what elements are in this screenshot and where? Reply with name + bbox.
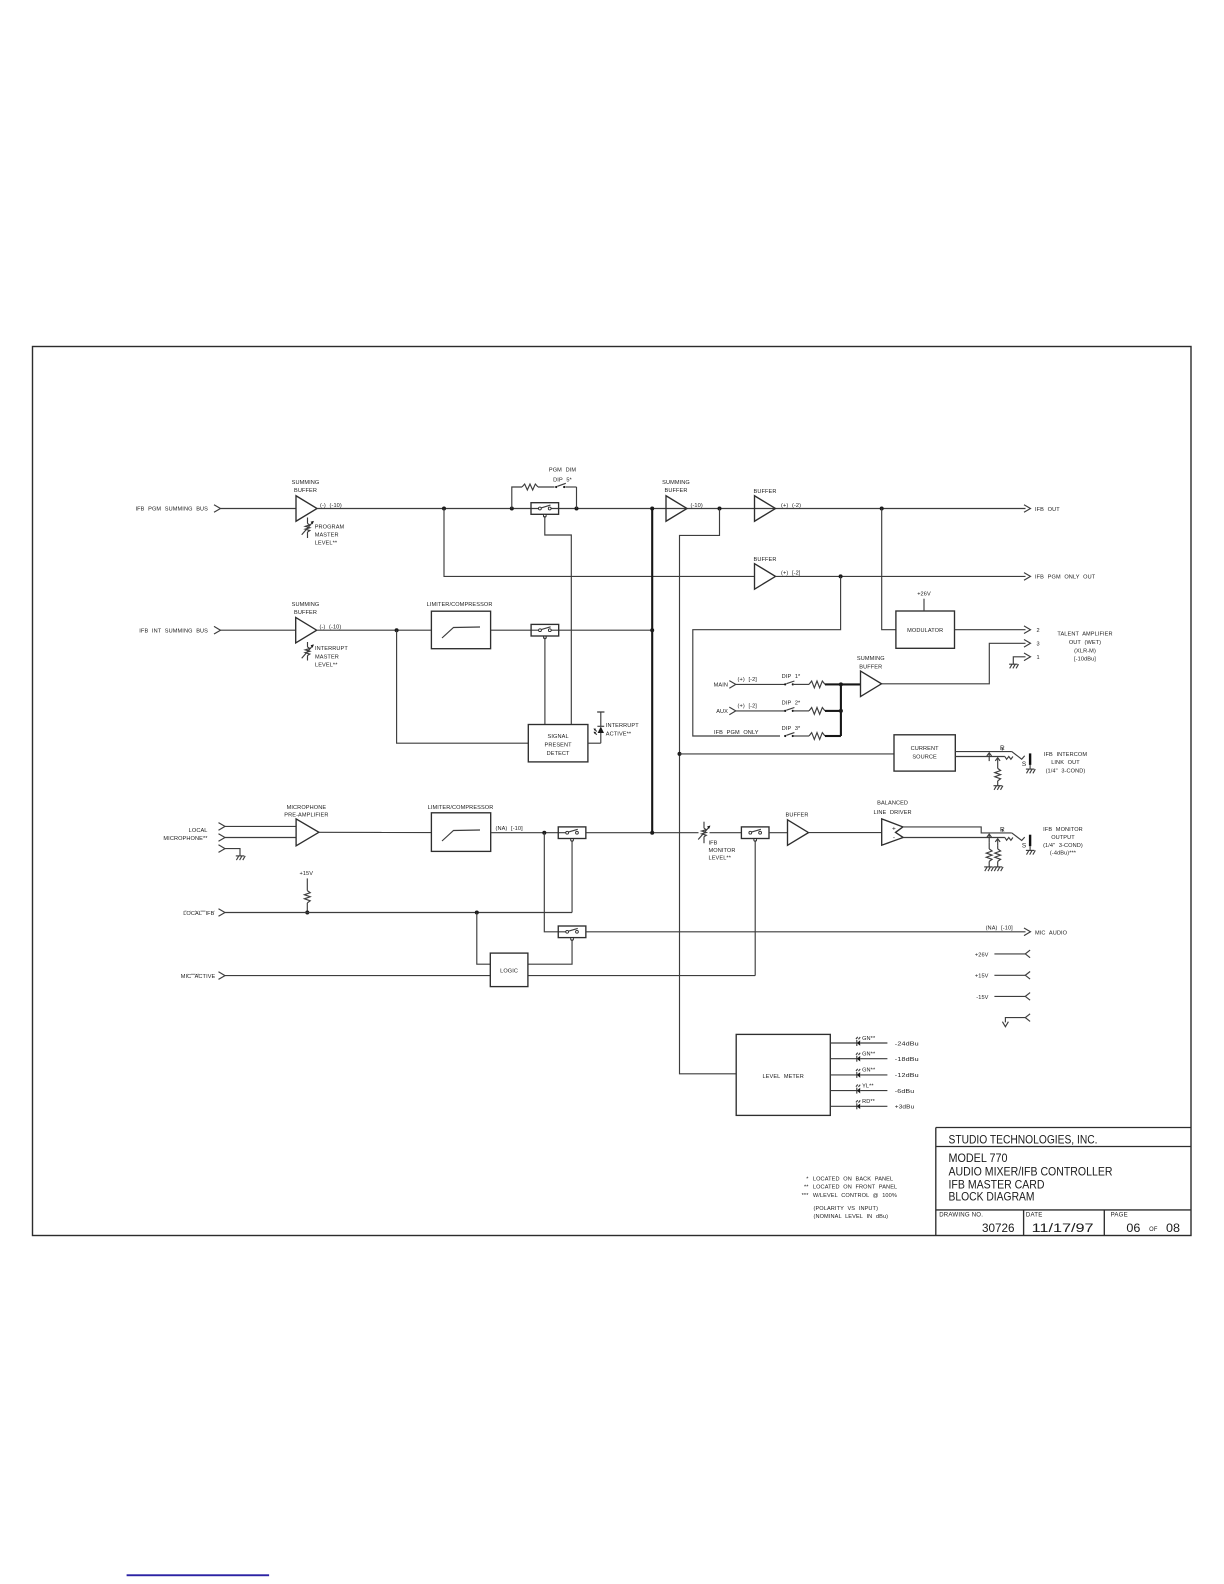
wire switch to buffer [769, 832, 788, 834]
wire pgm-only to resistor [794, 735, 809, 737]
svg-text:(+) [-2]: (+) [-2] [781, 571, 801, 577]
buffer U4 [754, 557, 801, 589]
wire mic audio out [586, 931, 1026, 933]
note w/level control [802, 1193, 897, 1199]
note polarity vs input [814, 1206, 879, 1212]
wire monitor switch control [754, 840, 756, 975]
resistor monitor term 2 [995, 846, 1001, 867]
svg-text:SUMMING: SUMMING [857, 656, 885, 662]
svg-text:INTERRUPT: INTERRUPT [606, 723, 639, 729]
level meter LED GN** -12dBu [830, 1068, 919, 1080]
svg-text:MIC AUDIO: MIC AUDIO [1035, 931, 1068, 937]
svg-text:TALENT AMPLIFIER: TALENT AMPLIFIER [1057, 631, 1112, 637]
switch DIP 2* [784, 708, 794, 713]
svg-text:S: S [1022, 843, 1027, 850]
wire pgm-only feed [444, 509, 755, 577]
svg-text:BUFFER: BUFFER [754, 489, 777, 495]
resistor MAIN summing [809, 681, 825, 688]
switch DIP 3 [784, 733, 794, 738]
output MIC AUDIO [1024, 928, 1068, 937]
buffer U3 [754, 489, 802, 521]
switch S3 mic [558, 827, 586, 841]
svg-text:IFB OUT: IFB OUT [1035, 507, 1060, 513]
svg-text:(-) (-10): (-) (-10) [320, 625, 342, 631]
output IFB PGM ONLY OUT [1024, 573, 1096, 581]
title text STUDIO TECHNOLOGIES, INC. [949, 1133, 1098, 1147]
svg-text:CURRENT: CURRENT [911, 746, 940, 752]
wire pgm-only to bus [825, 735, 841, 737]
limiter/compressor (mic) [428, 805, 494, 851]
svg-text:+3dBu: +3dBu [895, 1105, 915, 1111]
switch S5 mic audio [558, 926, 586, 940]
svg-text:MIC ACTIVE: MIC ACTIVE [181, 974, 216, 980]
summing buffer U7 (interrupt) [292, 602, 342, 643]
wire AUX to resistor [794, 710, 809, 712]
title text AUDIO MIXER/IFB CONTROLLER [949, 1164, 1113, 1178]
svg-text:-12dBu: -12dBu [895, 1073, 919, 1079]
svg-text:W/LEVEL CONTROL @ 100%: W/LEVEL CONTROL @ 100% [813, 1193, 897, 1199]
svg-text:LEVEL**: LEVEL** [315, 541, 338, 547]
svg-text:BUFFER: BUFFER [294, 488, 317, 494]
potentiometer IFB MONITOR LEVEL [698, 822, 735, 862]
wire tap to current source [680, 753, 895, 755]
svg-text:+26V: +26V [917, 591, 931, 597]
potentiometer PROGRAM MASTER LEVEL [302, 518, 345, 547]
svg-text:(NOMINAL LEVEL IN dBu): (NOMINAL LEVEL IN dBu) [814, 1214, 889, 1220]
input LOCAL IFB [183, 909, 225, 917]
output XLR pin 3 [1024, 640, 1040, 648]
wire driver hot out [903, 827, 1012, 833]
wire modulator out [955, 629, 1026, 631]
logic box [490, 953, 528, 987]
buffer U9 (monitor) [786, 813, 809, 846]
svg-text:SIGNAL: SIGNAL [548, 734, 569, 740]
input MAIN [714, 681, 736, 689]
output IFB OUT [1024, 505, 1060, 513]
supply pin -15V [976, 993, 1030, 1001]
drawing no. cell [939, 1212, 1014, 1235]
svg-text:BUFFER: BUFFER [786, 813, 809, 819]
node pgm bus junction [650, 507, 654, 511]
ground monitor terms [984, 867, 1003, 871]
svg-text:IFB INT SUMMING BUS: IFB INT SUMMING BUS [139, 628, 208, 634]
wire driver cold out [903, 837, 1005, 839]
svg-text:MAIN: MAIN [714, 683, 728, 689]
svg-text:IFB PGM ONLY: IFB PGM ONLY [714, 730, 759, 736]
wire mic audio feed [544, 833, 567, 932]
wire pgm only out [776, 575, 1026, 577]
title text BLOCK DIAGRAM [949, 1190, 1035, 1204]
svg-text:(NA) [-10]: (NA) [-10] [496, 826, 524, 832]
input IFB INT SUMMING BUS [139, 626, 220, 634]
svg-text:MASTER: MASTER [315, 532, 339, 538]
wire bus to summing buffer [841, 683, 861, 685]
svg-text:IFB INTERCOM: IFB INTERCOM [1044, 752, 1088, 758]
wire mic shield [225, 849, 240, 856]
svg-text:LINK OUT: LINK OUT [1051, 760, 1080, 766]
svg-text:LOCAL IFB: LOCAL IFB [183, 911, 214, 917]
svg-text:OUTPUT: OUTPUT [1051, 835, 1075, 841]
supply +26V modulator [917, 591, 931, 611]
svg-text:(1/4" 3-COND): (1/4" 3-COND) [1043, 843, 1083, 849]
svg-text:(NA) [-10]: (NA) [-10] [986, 925, 1014, 931]
wire AUX to bus [825, 710, 841, 712]
resistor PGM DIM [512, 484, 555, 509]
node pgm-monitor tee [442, 507, 446, 511]
node modulator tap [880, 507, 884, 511]
svg-text:DETECT: DETECT [547, 751, 570, 757]
wire mic inputs [225, 826, 296, 837]
wire mic audio switch control [528, 939, 572, 964]
svg-text:PRE-AMPLIFIER: PRE-AMPLIFIER [284, 813, 328, 819]
microphone pre-amplifier U8 [284, 805, 328, 846]
svg-text:OUT (WET): OUT (WET) [1069, 640, 1101, 646]
wire current source out hot [955, 751, 1012, 753]
svg-text:-: - [893, 835, 895, 842]
svg-text:BALANCED: BALANCED [877, 801, 908, 807]
balanced line driver U10 [873, 801, 911, 846]
svg-text:BUFFER: BUFFER [754, 557, 777, 563]
svg-text:11/17/97: 11/17/97 [1032, 1221, 1094, 1235]
wire dim switch control [545, 516, 572, 725]
input MIC ACTIVE [181, 972, 225, 980]
node current source tap [678, 752, 682, 756]
svg-text:R: R [1000, 826, 1005, 833]
label (NA) [-10] mic [496, 826, 524, 832]
svg-text:SOURCE: SOURCE [912, 755, 937, 761]
svg-text:[-10dBu]: [-10dBu] [1074, 656, 1096, 662]
supply +15V pullup [299, 871, 313, 913]
resistor monitor term 1 [986, 842, 992, 867]
svg-text:(POLARITY VS INPUT): (POLARITY VS INPUT) [814, 1206, 879, 1212]
label IFB INTERCOM LINK OUT [1044, 752, 1088, 774]
svg-text:BUFFER: BUFFER [665, 488, 688, 494]
wire mic active row [225, 975, 755, 977]
jack IFB INTERCOM LINK OUT [987, 745, 1036, 773]
svg-text:**: ** [804, 1184, 809, 1190]
svg-text:STUDIO TECHNOLOGIES, INC.: STUDIO TECHNOLOGIES, INC. [949, 1133, 1098, 1147]
wire local ifb to logic [477, 913, 491, 965]
wire MAIN to bus [825, 683, 841, 685]
svg-text:GN**: GN** [862, 1068, 876, 1074]
modulator U5 [896, 611, 955, 648]
LED INTERRUPT ACTIVE [594, 712, 640, 743]
wire preamp to limiter [319, 831, 432, 833]
node bus to monitor [650, 831, 654, 835]
node pgm only tap [839, 574, 843, 578]
wire mic switch control [571, 840, 573, 912]
node pullup [305, 911, 309, 915]
svg-text:LOCATED ON BACK PANEL: LOCATED ON BACK PANEL [813, 1177, 893, 1183]
date cell [1026, 1212, 1094, 1235]
wire limiter to switch [491, 629, 653, 631]
node mic audio tap [542, 831, 546, 835]
input IFB PGM SUMMING BUS [135, 505, 220, 513]
svg-text:RD**: RD** [862, 1099, 876, 1105]
wire pgm bus to summing buffer [221, 508, 297, 510]
wire summing to pin3 [882, 643, 1026, 684]
svg-text:+26V: +26V [975, 952, 989, 958]
svg-text:(-) (-10): (-) (-10) [320, 503, 342, 509]
switch S1 pgm dim [531, 503, 559, 517]
resistor link term [995, 766, 1001, 786]
level meter LED GN** -24dBu [830, 1036, 919, 1048]
svg-text:MICROPHONE**: MICROPHONE** [163, 836, 208, 842]
svg-text:(1/4" 3-COND): (1/4" 3-COND) [1046, 768, 1086, 774]
wire to signal detect [397, 630, 529, 743]
svg-text:SUMMING: SUMMING [662, 480, 690, 486]
svg-text:GN**: GN** [862, 1052, 876, 1058]
svg-text:+15V: +15V [975, 974, 989, 980]
wire MAIN to resistor [794, 683, 809, 685]
svg-text:INTERRUPT: INTERRUPT [315, 646, 348, 652]
wire int switch control [544, 637, 546, 724]
svg-text:+15V: +15V [299, 871, 313, 877]
svg-text:DIP 1*: DIP 1* [782, 674, 801, 680]
svg-text:SUMMING: SUMMING [292, 602, 320, 608]
note nominal level [814, 1214, 889, 1220]
wire pgm feed to level meter [680, 509, 737, 1074]
switch S4 monitor [741, 827, 769, 841]
svg-text:BUFFER: BUFFER [859, 665, 882, 671]
wire int to limiter [317, 629, 431, 631]
svg-text:(+) (-2): (+) (-2) [781, 503, 801, 509]
svg-text:IFB PGM ONLY OUT: IFB PGM ONLY OUT [1035, 575, 1096, 581]
label TALENT AMPLIFIER OUT [1057, 631, 1112, 662]
svg-text:GN**: GN** [862, 1036, 876, 1042]
potentiometer INTERRUPT MASTER LEVEL [302, 642, 349, 668]
supply pin +15V [975, 972, 1030, 980]
summing buffer U6 (talent) [857, 656, 885, 696]
svg-text:MONITOR: MONITOR [709, 848, 736, 854]
switch S2 interrupt [531, 624, 559, 638]
svg-text:R: R [1000, 745, 1005, 752]
svg-text:BUFFER: BUFFER [294, 610, 317, 616]
svg-text:MODULATOR: MODULATOR [907, 628, 943, 634]
summing buffer U2 (-10) [662, 480, 703, 521]
supply pin +26V [975, 950, 1030, 958]
summing bus node [839, 682, 843, 736]
svg-text:PROGRAM: PROGRAM [315, 524, 345, 530]
svg-text:LEVEL**: LEVEL** [315, 662, 338, 668]
svg-text:YL**: YL** [862, 1083, 874, 1089]
input LOCAL MICROPHONE [163, 823, 225, 853]
footer link line [127, 1574, 270, 1576]
wire int bus to buffer [221, 629, 296, 631]
note located on back panel [806, 1177, 893, 1183]
wire MAIN row [736, 674, 801, 684]
summing bus (heavy) [650, 509, 654, 833]
svg-text:DRAWING NO.: DRAWING NO. [939, 1212, 983, 1219]
svg-text:IFB PGM SUMMING BUS: IFB PGM SUMMING BUS [135, 507, 208, 513]
svg-text:(-10): (-10) [691, 503, 703, 509]
svg-text:MASTER: MASTER [315, 654, 339, 660]
page cell [1111, 1212, 1180, 1235]
svg-text:LOCATED ON FRONT PANEL: LOCATED ON FRONT PANEL [813, 1184, 897, 1190]
svg-text:(+) [-2]: (+) [-2] [738, 703, 758, 709]
svg-text:(+) [-2]: (+) [-2] [738, 677, 758, 683]
wire limiter to mic switch [491, 832, 567, 834]
svg-text:LIMITER/COMPRESSOR: LIMITER/COMPRESSOR [427, 602, 493, 608]
svg-text:30726: 30726 [982, 1221, 1015, 1235]
svg-text:DIP 3*: DIP 3* [782, 726, 801, 732]
svg-text:-24dBu: -24dBu [895, 1041, 919, 1047]
wire local ifb row [225, 912, 572, 914]
svg-text:LOCAL: LOCAL [189, 828, 208, 834]
node dim bypass right [575, 507, 579, 511]
wire pot to monitor switch [710, 832, 742, 834]
current source [894, 735, 955, 771]
signal present detect [528, 725, 588, 762]
level meter LED GN** -18dBu [830, 1052, 919, 1064]
svg-text:-18dBu: -18dBu [895, 1057, 919, 1063]
switch DIP 1* [784, 681, 794, 686]
svg-text:AUDIO MIXER/IFB CONTROLLER: AUDIO MIXER/IFB CONTROLLER [949, 1164, 1113, 1178]
svg-text:PAGE: PAGE [1111, 1212, 1128, 1219]
node logic tap [475, 911, 479, 915]
svg-text:LIMITER/COMPRESSOR: LIMITER/COMPRESSOR [428, 805, 494, 811]
svg-text:IFB: IFB [709, 840, 718, 846]
wire ifb-out to modulator [882, 509, 896, 630]
output XLR pin 2 [1024, 626, 1040, 634]
jack IFB MONITOR OUTPUT [987, 826, 1036, 854]
svg-text:LINE DRIVER: LINE DRIVER [873, 810, 911, 816]
summing buffer U1 (program) [292, 480, 342, 521]
svg-text:DATE: DATE [1026, 1212, 1043, 1219]
svg-text:*: * [806, 1177, 809, 1183]
svg-text:SUMMING: SUMMING [292, 480, 320, 486]
wire current source out cold [955, 756, 1005, 758]
node dim bypass left [510, 507, 514, 511]
svg-text:ACTIVE**: ACTIVE** [606, 732, 632, 738]
svg-text:06: 06 [1126, 1221, 1140, 1235]
ground mic shield [236, 856, 245, 860]
output XLR pin 1 [1009, 653, 1040, 668]
svg-text:-6dBu: -6dBu [895, 1089, 915, 1095]
svg-text:AUX: AUX [716, 709, 728, 715]
resistor pgm-only summing [809, 733, 825, 740]
wire mic to monitor pot [586, 832, 699, 834]
svg-text:2: 2 [1037, 628, 1040, 634]
svg-text:S: S [1022, 761, 1027, 768]
wire pgm-only to dip3 [693, 576, 841, 736]
title block [936, 1128, 1191, 1236]
level meter LED YL** -6dBu [830, 1083, 914, 1095]
svg-text:IFB MONITOR: IFB MONITOR [1043, 827, 1083, 833]
svg-text:(-4dBu)***: (-4dBu)*** [1050, 851, 1077, 857]
note located on front panel [804, 1184, 897, 1190]
wire buffer to driver [809, 832, 882, 834]
node pgm feed tee [718, 507, 722, 511]
svg-text:LOGIC: LOGIC [500, 969, 518, 975]
title text MODEL 770 [949, 1151, 1008, 1165]
svg-text:OF: OF [1149, 1226, 1158, 1233]
title text IFB MASTER CARD [949, 1178, 1045, 1192]
wire detect to LED [588, 742, 601, 744]
resistor AUX summing [809, 708, 825, 715]
label IFB MONITOR OUTPUT [1043, 827, 1083, 857]
svg-text:DIP 2*: DIP 2* [782, 701, 801, 707]
limiter/compressor (interrupt) [427, 602, 493, 649]
drawing border frame [33, 347, 1192, 1236]
svg-text:PGM DIM: PGM DIM [549, 468, 576, 474]
level meter LED RD** +3dBu [830, 1099, 914, 1111]
label (NA) [-10] out [986, 925, 1014, 931]
wire pgm line [317, 508, 1026, 510]
node signal detect tap [395, 628, 399, 632]
svg-text:BLOCK DIAGRAM: BLOCK DIAGRAM [949, 1190, 1035, 1204]
svg-text:+: + [892, 825, 896, 832]
svg-text:08: 08 [1166, 1221, 1180, 1235]
svg-text:LEVEL**: LEVEL** [709, 856, 732, 862]
svg-text:3: 3 [1037, 642, 1040, 648]
svg-text:(XLR-M): (XLR-M) [1074, 648, 1096, 654]
ground link term [994, 786, 1003, 790]
input AUX [716, 707, 736, 715]
label IFB PGM ONLY row [714, 726, 801, 736]
switch DIP 5 [549, 468, 577, 509]
level meter box [736, 1034, 830, 1115]
wire AUX row [736, 701, 801, 711]
ground pin [1002, 1014, 1030, 1027]
svg-text:LEVEL METER: LEVEL METER [762, 1074, 803, 1080]
svg-text:-15V: -15V [976, 995, 988, 1001]
svg-text:***: *** [802, 1193, 810, 1199]
svg-text:MICROPHONE: MICROPHONE [287, 805, 327, 811]
svg-text:1: 1 [1037, 655, 1040, 661]
svg-text:DIP 5*: DIP 5* [553, 478, 572, 484]
svg-text:PRESENT: PRESENT [545, 742, 573, 748]
svg-text:MODEL 770: MODEL 770 [949, 1151, 1008, 1165]
